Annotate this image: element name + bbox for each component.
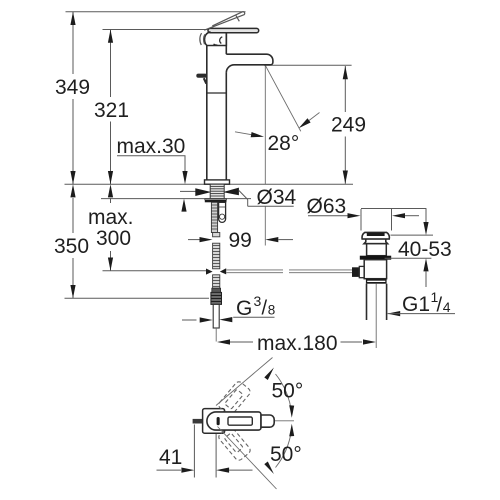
dimension 40-53	[385, 209, 452, 288]
svg-text:max.180: max.180	[257, 332, 338, 355]
spout arm	[226, 54, 273, 72]
top view centerline	[197, 420, 295, 422]
svg-text:28°: 28°	[268, 132, 300, 155]
upper 50 arc arrowheads	[289, 405, 294, 418]
svg-text:8: 8	[268, 303, 276, 318]
dimension Ø63	[307, 195, 420, 231]
extension line 350 bottom	[65, 297, 210, 299]
svg-text:41: 41	[159, 446, 182, 469]
check valve fitting	[219, 202, 226, 222]
dimension max.180	[217, 332, 376, 355]
lower 50 degree ray	[218, 427, 277, 490]
water stream 28 degree line	[265, 65, 301, 131]
top view lever inner rectangle	[228, 417, 252, 425]
dimension 99	[188, 229, 293, 252]
svg-text:349: 349	[55, 76, 90, 99]
top view body square	[203, 409, 225, 434]
top view cartridge slot	[217, 417, 220, 425]
svg-text:350: 350	[54, 235, 89, 258]
svg-text:G: G	[236, 297, 252, 320]
svg-text:300: 300	[96, 227, 131, 250]
faucet lever horizontal bar	[208, 28, 259, 32]
threaded shank through deck	[210, 184, 224, 198]
extension line top of raised lever	[66, 11, 246, 13]
dimension max.30	[117, 135, 188, 212]
G3/8 backnut	[211, 292, 222, 304]
stabilizer plate and washer below deck	[205, 199, 227, 200]
countertop deck top line	[65, 183, 354, 185]
faucet body column	[206, 46, 208, 181]
drain o-ring seal	[360, 256, 391, 260]
top view lever tip piece	[261, 415, 274, 427]
28 degree label and arrows	[235, 113, 320, 156]
svg-text:/: /	[262, 298, 268, 320]
upper 50 degree ray	[216, 358, 273, 406]
dimension 321	[94, 30, 129, 185]
drain flange with plug	[361, 232, 390, 239]
svg-text:Ø34: Ø34	[257, 186, 297, 209]
top view lever phantom rotated down 50	[217, 425, 252, 461]
extension line top of lever	[103, 29, 209, 31]
base flange on deck	[205, 180, 230, 184]
pop-up rod knob	[196, 74, 207, 84]
drain axis centerline	[375, 284, 377, 348]
extension line max.300 bottom / horizontal rod line	[103, 270, 207, 272]
svg-text:321: 321	[94, 99, 129, 122]
pop-up actuating rod	[226, 270, 352, 273]
dimension 41	[157, 425, 253, 478]
drain coupling ring	[366, 279, 387, 284]
svg-text:249: 249	[331, 114, 366, 137]
hose clip bowtie at rod crossing	[206, 268, 226, 274]
body joint line	[207, 92, 227, 94]
G1 1/4 label	[387, 289, 455, 317]
hose axis extension	[215, 328, 217, 342]
dimension 349	[55, 12, 90, 185]
lower 50 arc arrowheads	[289, 424, 294, 437]
cartridge dome cap	[204, 32, 226, 46]
top view lever phantom rotated up 50	[217, 380, 252, 416]
flexible supply hose upper part	[213, 233, 220, 269]
svg-text:/: /	[437, 295, 443, 317]
spout outlet vertical axis line	[264, 65, 266, 184]
svg-text:40-53: 40-53	[398, 238, 452, 261]
svg-text:Ø63: Ø63	[307, 195, 347, 218]
drain lower body	[364, 260, 386, 279]
countertop deck bottom line	[101, 198, 251, 200]
threaded rod below deck	[211, 202, 217, 232]
lower 50 degree arc	[276, 431, 292, 468]
top view supply stub	[193, 419, 204, 424]
hose collar	[212, 288, 221, 292]
svg-text:99: 99	[229, 229, 252, 252]
upper 50 degree arc	[276, 374, 292, 411]
svg-text:max.: max.	[88, 206, 134, 229]
G3/8 threaded tube end	[213, 304, 219, 328]
drain upper body	[367, 244, 387, 256]
dimension max.300	[88, 184, 134, 271]
dimension 249	[264, 65, 366, 184]
drain neck	[364, 239, 388, 244]
svg-text:max.30: max.30	[117, 135, 186, 158]
G3/8 label	[182, 293, 275, 323]
top view lever body	[207, 412, 261, 430]
rod ball joint block	[352, 267, 359, 277]
drain tailpipe	[367, 284, 387, 320]
svg-text:50°: 50°	[270, 443, 302, 466]
rod port cylinder	[359, 266, 368, 277]
dome raised phantom arcs	[200, 33, 205, 45]
dimension leader Ø34 arrows at shank	[180, 186, 297, 209]
dimension 350	[54, 184, 89, 298]
faucet lever raised phantom position	[204, 12, 245, 31]
flexible supply hose lower part	[213, 275, 220, 288]
svg-text:3: 3	[254, 293, 262, 309]
extension line drain top reference	[361, 208, 426, 210]
svg-text:G1: G1	[402, 293, 430, 316]
svg-text:50°: 50°	[272, 380, 304, 403]
svg-text:4: 4	[443, 299, 451, 315]
